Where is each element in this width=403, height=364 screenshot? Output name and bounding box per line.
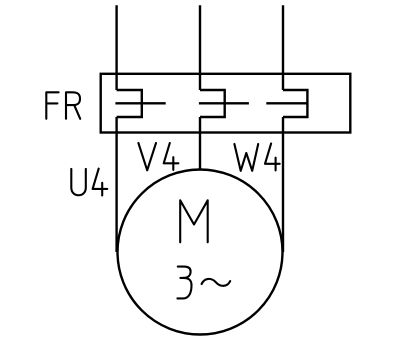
thermal overload relay box FR [101, 74, 351, 133]
linkage line segment phase 3 [266, 102, 307, 104]
linkage line segment phase 2 [199, 102, 249, 104]
wire phase 1 top [115, 5, 117, 90]
label V4 [138, 143, 178, 170]
overload heater element FR phase 1 [117, 90, 142, 117]
label W4 [234, 144, 279, 171]
wire phase 3 top [282, 5, 284, 90]
wire W4 (phase 3 to motor) [282, 117, 284, 252]
motor M circle [118, 170, 283, 335]
wire phase 2 top [199, 5, 201, 90]
label U4 [71, 169, 107, 196]
wire U4 (phase 1 to motor) [115, 117, 117, 252]
linkage line segment phase 1 [115, 102, 165, 104]
overload heater element FR phase 3 [283, 90, 307, 117]
label FR [46, 92, 80, 119]
wire V4 (phase 2 to motor) [199, 117, 201, 170]
label M (motor) [180, 200, 208, 242]
label 3~ (three-phase) [177, 267, 230, 299]
overload heater element FR phase 2 [200, 90, 225, 117]
